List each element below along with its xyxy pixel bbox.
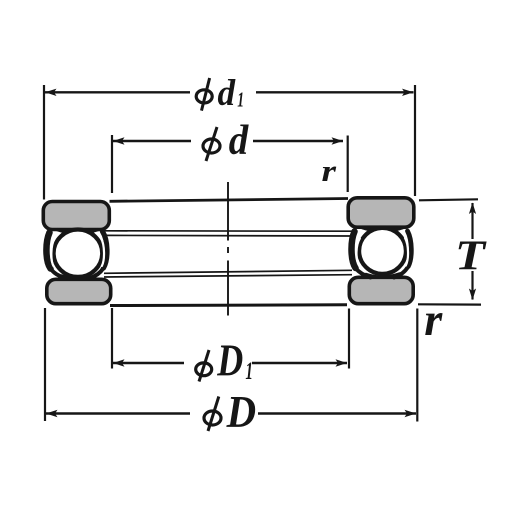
washer shaft right (top-right gray ring section) [348,198,414,227]
svg-text:d: d [218,73,236,114]
svg-text:d: d [229,118,249,164]
extension line phi-D1 left [111,308,113,369]
label d of phi-d1 [218,73,236,114]
cage left ball white slivers [51,238,104,267]
dimension line T vertical [471,203,473,300]
dimension line phi-D [46,412,416,414]
extension line phi-d right [347,136,349,193]
svg-text:D: D [217,336,244,386]
label phi of phi-d1 [196,78,212,111]
extension line phi-d1 left [43,85,45,200]
ball right [359,228,406,274]
label d of phi-d [229,118,249,164]
ball left [54,230,103,277]
label D of phi-D [226,387,256,437]
label phi of phi-d [203,127,220,161]
extension line T top [419,199,478,200]
extension line phi-d1 right [414,85,416,196]
arrow phi-d1 right [402,89,414,96]
arrow phi-D right [405,410,417,417]
arrow phi-D left [46,410,58,417]
svg-text:1: 1 [245,358,253,385]
cage left ball crescent strokes [46,232,107,280]
dimension line phi-d1 [45,91,414,93]
svg-text:D: D [226,387,256,437]
shaft washer lower edge line 1 [104,230,352,232]
label r upper [322,153,338,188]
label phi of phi-D1 [196,350,212,382]
washer shaft left (top-left gray ring section) [43,202,109,230]
housing washer upper edge line 1 [104,270,352,273]
dimension line phi-D1 [113,362,347,364]
bottom face silhouette line [110,303,347,307]
svg-text:1: 1 [237,87,244,111]
extension line phi-D left [44,308,46,421]
extension line T bottom [418,303,481,306]
extension line phi-D right [416,309,418,422]
svg-text:r: r [322,153,338,188]
shaft washer groove dip left [57,230,98,234]
label subscript 1 of phi-d1 [237,87,244,111]
center line (bearing axis, dash-dot) [227,182,229,316]
cage right ball white slivers [356,238,408,266]
svg-text:r: r [424,294,443,346]
shaft washer groove dip right [362,228,403,232]
shaft washer lower edge line 2 [104,234,352,237]
label D of phi-D1 [217,336,244,386]
arrow phi-D1 left [113,359,125,366]
label r lower right [424,294,443,346]
arrow phi-d left [113,137,125,144]
extension line phi-d left [111,135,113,193]
top face silhouette line [110,199,349,202]
arrow T down [469,289,476,301]
washer housing left (bottom-left gray ring section) [47,279,111,303]
arrow phi-d right [332,137,344,144]
arrow phi-d1 left [45,89,57,96]
housing washer upper edge line 2 [104,275,352,277]
label T [455,233,488,279]
cage right ball crescent strokes [352,231,412,278]
svg-text:T: T [455,233,488,279]
arrow T up [469,203,476,215]
label phi of phi-D [204,397,221,432]
extension line phi-D1 right [348,309,350,369]
label subscript 1 of phi-D1 [245,358,253,385]
dimension line phi-d [113,140,343,142]
arrow phi-D1 right [336,359,348,366]
washer housing right (bottom-right gray ring section) [349,277,413,303]
